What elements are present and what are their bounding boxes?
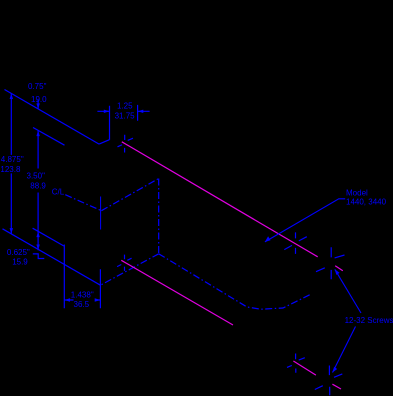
arrow Model leader [265,236,271,242]
arrow 0.75 bottom [36,130,39,136]
svg-text:1.438": 1.438" [71,290,94,299]
dimension stub 0.75 [37,100,39,109]
arrow 0.75 top [36,103,39,109]
leader Model [265,199,345,242]
centerline down-left [100,254,158,285]
screw axis lower tail [332,384,341,389]
screw axis lower b [293,361,316,375]
screw star lower [315,366,343,396]
svg-text:0.625": 0.625" [7,248,30,257]
hole star upper [118,135,134,153]
arrow 1.25 left [104,110,110,113]
leader screws bottom [333,327,356,373]
arrow 4.875 top [10,93,13,99]
svg-text:12-32 Screws: 12-32 Screws [345,316,393,325]
leader 0.625 [33,254,45,259]
arrow 3.50 bottom [36,231,39,237]
C/L leader line [65,195,101,211]
leader screws top [335,269,361,313]
magenta screw axes [121,142,342,389]
arrow 0.625 bottom [36,245,39,251]
arrow 1.438 left [64,298,70,301]
dimension line 3.50 [37,130,39,250]
arrow screws top leader [335,269,340,275]
screw axis lower a [121,260,233,325]
arrow 1.438 right [95,298,101,301]
arrow screws bottom leader [333,367,338,373]
centerlines dash-dot [65,179,311,310]
washer star lower [287,354,305,373]
svg-text:36.5: 36.5 [74,300,90,309]
svg-text:Model: Model [346,189,368,198]
svg-text:19.0: 19.0 [31,95,47,104]
dimension ticks 1.438 [64,245,100,309]
panel top-right corner stub [99,140,109,144]
screw star upper [316,247,345,279]
arrow 4.875 bottom [10,228,13,234]
rear flange bottom edge [33,228,64,246]
svg-text:0.75": 0.75" [28,82,47,91]
svg-text:15.9: 15.9 [12,258,28,267]
washer star upper [284,232,307,254]
svg-text:1.25: 1.25 [117,101,133,110]
arrow 1.25 right [138,110,144,113]
svg-text:1440, 3440: 1440, 3440 [346,198,387,207]
screw axis upper [122,142,318,257]
arrowheads [10,93,340,372]
centerline vertical [158,179,160,254]
rear flange top edge [33,128,65,146]
svg-text:C/L: C/L [52,187,65,196]
dimension line 4.875 [10,93,12,234]
center vertical C/L [100,197,102,230]
panel top edge [5,90,100,145]
chassis phantom line [159,254,312,309]
screw axis upper tail [335,266,343,271]
svg-text:88.9: 88.9 [30,181,46,190]
panel bottom edge [3,229,101,285]
centerline up-right [101,179,158,211]
svg-text:4.875": 4.875" [1,155,24,164]
dimension line 1.438 [64,299,100,301]
svg-text:31.75: 31.75 [115,111,136,120]
svg-text:123.8: 123.8 [0,165,21,174]
dimension ticks 1.25 [110,105,138,140]
hole star lower [117,255,132,271]
svg-text:3.50": 3.50" [27,171,46,180]
dimension line 1.25 [97,110,149,112]
